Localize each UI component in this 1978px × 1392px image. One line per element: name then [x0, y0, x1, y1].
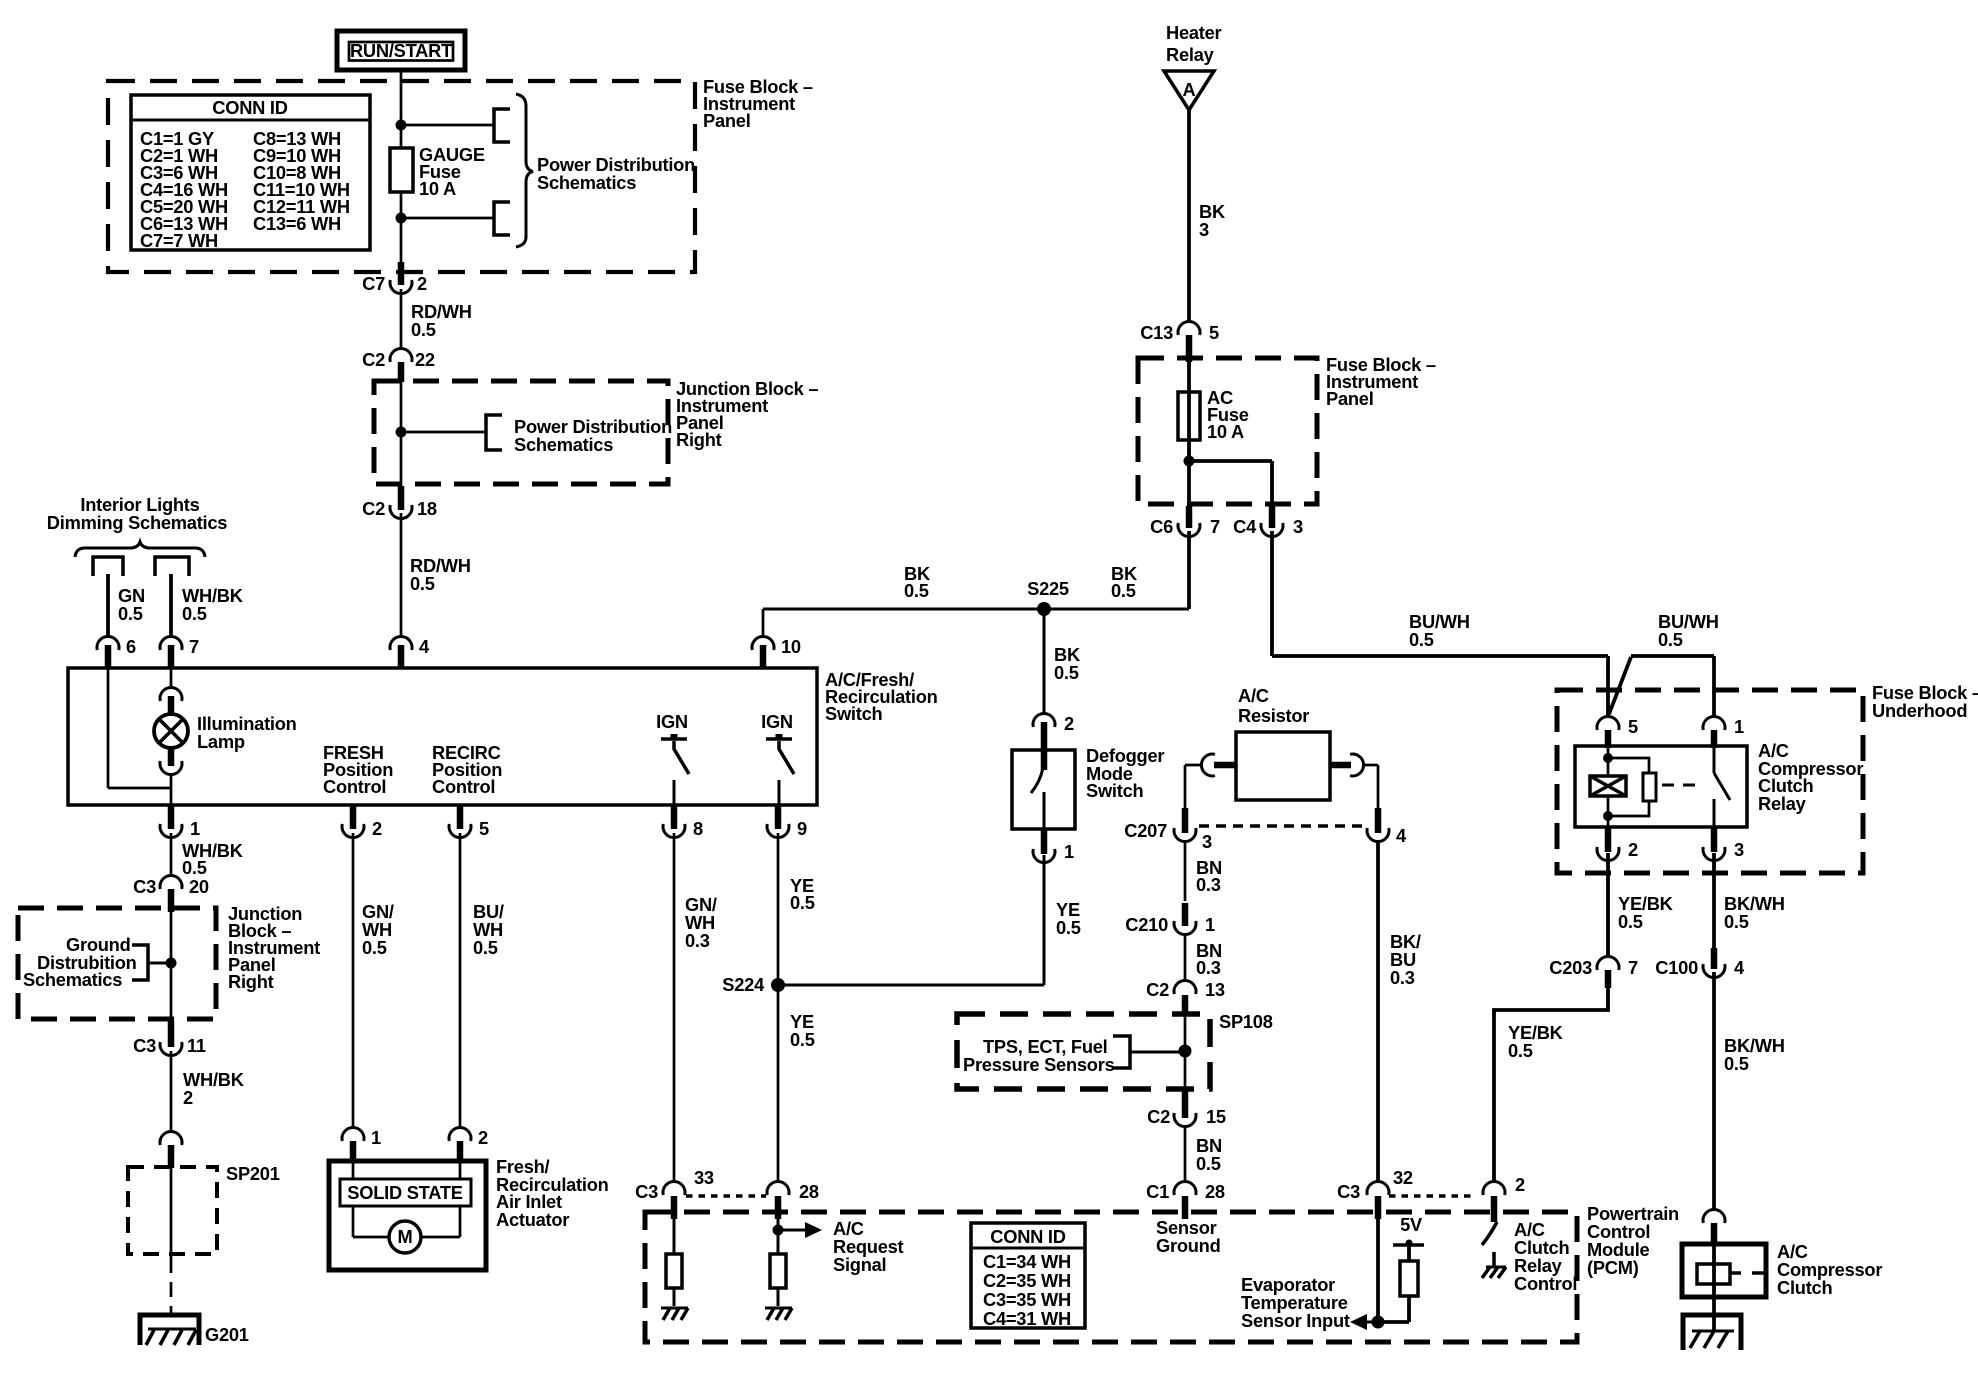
- bracket TPS sensors: [1113, 1036, 1130, 1068]
- fuse block underhood dashed box: [1557, 690, 1863, 873]
- svg-text:(PCM): (PCM): [1587, 1257, 1639, 1278]
- svg-text:2: 2: [417, 273, 427, 294]
- wire BK 0.5 from C6: [1187, 531, 1191, 609]
- svg-text:8: 8: [693, 818, 703, 839]
- wire WH/BK 2: [170, 1051, 173, 1131]
- splice SP201 dashed box: [128, 1167, 217, 1254]
- svg-text:1: 1: [190, 818, 200, 839]
- svg-text:S224: S224: [722, 974, 765, 995]
- svg-text:5: 5: [1209, 322, 1219, 343]
- connector C6 pin 7: [1186, 506, 1193, 528]
- svg-text:10: 10: [781, 636, 801, 657]
- bracket interior lights right: [155, 557, 189, 576]
- wire evaporator sensor input: [1376, 1213, 1380, 1322]
- svg-text:0.5: 0.5: [1508, 1040, 1533, 1061]
- svg-text:13: 13: [1205, 979, 1225, 1000]
- svg-text:Clutch: Clutch: [1777, 1277, 1832, 1298]
- wire GN/WH 0.3: [673, 833, 676, 1181]
- connector C100 pin 4: [1711, 948, 1718, 969]
- svg-text:Signal: Signal: [833, 1254, 886, 1275]
- svg-text:A: A: [1183, 79, 1196, 100]
- svg-text:28: 28: [1205, 1181, 1225, 1202]
- connector C2 pin 13: [1174, 980, 1196, 994]
- wire through SP201: [170, 1167, 173, 1258]
- resistor evaporator pullup: [1400, 1261, 1418, 1296]
- coil compressor clutch: [1712, 1244, 1716, 1297]
- fuse GAUGE 10 A: [390, 148, 413, 192]
- svg-text:20: 20: [189, 876, 209, 897]
- svg-text:0.5: 0.5: [182, 603, 207, 624]
- connector C7 pin 2: [398, 262, 405, 285]
- svg-text:C13=6 WH: C13=6 WH: [253, 213, 341, 234]
- A/C compressor clutch box: [1682, 1244, 1766, 1297]
- svg-text:2: 2: [478, 1127, 488, 1148]
- wire through SP108: [1184, 1014, 1187, 1089]
- svg-text:0.5: 0.5: [411, 319, 436, 340]
- svg-text:Panel: Panel: [1326, 388, 1374, 409]
- node fuse output junction: [1184, 456, 1195, 467]
- wire dotted bus 32 to 2: [1389, 1194, 1472, 1198]
- svg-text:Control: Control: [432, 776, 495, 797]
- wire GN 0.5: [106, 574, 110, 637]
- svg-text:0.5: 0.5: [118, 603, 143, 624]
- connector C4 pin 3: [1269, 506, 1276, 528]
- svg-text:Schematics: Schematics: [537, 172, 636, 193]
- svg-text:Control: Control: [323, 776, 386, 797]
- splice S224: [771, 978, 785, 992]
- svg-text:Schematics: Schematics: [23, 969, 122, 990]
- wire YE/BK 0.5 to PCM pin 2: [1494, 988, 1608, 1181]
- wire clutch to ground: [1712, 1297, 1716, 1332]
- svg-text:7: 7: [189, 636, 199, 657]
- connector C1 pin 28: [1174, 1181, 1196, 1195]
- connector pin 5 of switch: [457, 805, 464, 829]
- fuse block instrument panel dashed box right: [1138, 358, 1317, 504]
- wire fuse to C7: [400, 192, 403, 262]
- connector pin 4 of switch: [390, 636, 412, 650]
- relay coil parallel resistor: [1608, 758, 1649, 773]
- wire dotted bus 33 to 28: [686, 1194, 766, 1198]
- fresh/recirculation air inlet actuator box: [329, 1161, 486, 1270]
- svg-text:3: 3: [1293, 516, 1303, 537]
- junction block instrument panel right dashed box: [374, 381, 668, 484]
- svg-text:3: 3: [1199, 219, 1209, 240]
- connector C203 pin 7: [1597, 956, 1619, 970]
- svg-text:7: 7: [1628, 957, 1638, 978]
- svg-text:11: 11: [187, 1035, 206, 1056]
- ground PCM internal mid: [765, 1307, 792, 1310]
- wire actuator internal: [352, 1161, 355, 1179]
- wire BK/WH 0.5 from relay pin 3: [1712, 853, 1716, 948]
- svg-text:C100: C100: [1655, 957, 1698, 978]
- wire bracket to splice: [1130, 1051, 1180, 1054]
- connector C3 pin 20: [160, 875, 182, 889]
- connector C3 pin 32: [1367, 1181, 1389, 1195]
- connector relay pin 1: [1703, 716, 1725, 730]
- svg-text:Lamp: Lamp: [197, 731, 245, 752]
- svg-text:4: 4: [1734, 957, 1745, 978]
- branch bracket bottom: [494, 202, 510, 235]
- wire bracket to main: [148, 962, 171, 965]
- svg-text:0.5: 0.5: [1658, 629, 1683, 650]
- relay coil: [1607, 746, 1610, 776]
- wire BK 3: [1187, 110, 1191, 321]
- connector defogger pin 1: [1041, 829, 1048, 854]
- svg-text:SP108: SP108: [1219, 1011, 1273, 1032]
- svg-text:10 A: 10 A: [1207, 421, 1244, 442]
- svg-text:32: 32: [1393, 1167, 1413, 1188]
- svg-text:C210: C210: [1125, 914, 1168, 935]
- splice SP108 dashed box: [957, 1014, 1210, 1089]
- ground compressor clutch: [1683, 1315, 1741, 1350]
- node upper branch junction: [396, 120, 407, 131]
- svg-text:2: 2: [183, 1087, 193, 1108]
- svg-text:Right: Right: [228, 971, 274, 992]
- svg-text:IGN: IGN: [761, 711, 793, 732]
- wire YE 0.5 defogger to S224: [1043, 855, 1046, 985]
- bracket interior lights left: [93, 557, 123, 576]
- wire RD/WH 0.5: [400, 289, 403, 349]
- svg-text:2: 2: [1064, 713, 1074, 734]
- wire WH/BK 0.5: [169, 574, 173, 637]
- brace power distribution schematics: [516, 94, 533, 247]
- wire BN 0.3: [1184, 840, 1187, 901]
- svg-text:0.3: 0.3: [1196, 874, 1221, 895]
- svg-text:Relay: Relay: [1758, 793, 1807, 814]
- connector pin 8 of switch: [671, 805, 678, 829]
- solid state module: [340, 1179, 471, 1206]
- connector pin 28 of PCM: [767, 1181, 789, 1195]
- connector actuator pin 1: [342, 1127, 364, 1141]
- svg-text:Schematics: Schematics: [514, 434, 613, 455]
- svg-text:0.5: 0.5: [410, 573, 435, 594]
- node A/C request tap: [773, 1225, 784, 1236]
- connector resistor right pin: [1330, 762, 1351, 769]
- svg-text:10 A: 10 A: [419, 178, 456, 199]
- svg-text:CONN ID: CONN ID: [212, 97, 287, 118]
- connector pin 10 of switch: [762, 609, 765, 637]
- connector actuator pin 2: [449, 1127, 471, 1141]
- node lower branch junction: [396, 213, 407, 224]
- fuse AC 10 A: [1178, 392, 1200, 440]
- svg-text:C3: C3: [133, 876, 156, 897]
- switch defogger blade: [1031, 768, 1043, 793]
- ground PCM internal right: [1492, 1252, 1496, 1266]
- svg-text:SOLID STATE: SOLID STATE: [347, 1182, 462, 1203]
- svg-text:6: 6: [126, 636, 136, 657]
- connector relay pin 2: [1605, 827, 1612, 852]
- svg-text:C203: C203: [1549, 957, 1592, 978]
- brace interior lights: [75, 542, 205, 557]
- connector pin 9 of switch: [775, 805, 782, 829]
- svg-text:Switch: Switch: [1086, 780, 1143, 801]
- bracket power distribution: [486, 415, 502, 450]
- wire BK/WH 0.5 to compressor clutch: [1712, 972, 1716, 1209]
- wire resistor left to C207: [1184, 765, 1187, 810]
- svg-text:15: 15: [1206, 1106, 1226, 1127]
- wire YE 0.5 to pin 28: [777, 985, 780, 1181]
- wire through junction block: [400, 381, 403, 486]
- connector PCM pin 2: [1483, 1181, 1505, 1195]
- wire BU/WH 0.5 pin 5 to actuator: [459, 833, 462, 1128]
- switch A/C clutch relay control: [1482, 1222, 1497, 1245]
- wire resistor right to pin 4: [1377, 765, 1380, 810]
- svg-text:7: 7: [1210, 516, 1220, 537]
- wire WH/BK 0.5 from pin 1: [170, 833, 173, 876]
- connector C2 pin 22: [390, 348, 412, 362]
- svg-text:0.5: 0.5: [1724, 911, 1749, 932]
- wire RUN/START to fuse: [400, 70, 403, 148]
- svg-text:RUN/START: RUN/START: [350, 40, 452, 61]
- wire BK 0.5 to defogger: [1043, 609, 1046, 713]
- illumination lamp L1: [170, 668, 173, 688]
- svg-text:IGN: IGN: [656, 711, 688, 732]
- svg-text:Underhood: Underhood: [1872, 700, 1967, 721]
- svg-text:C4=31 WH: C4=31 WH: [983, 1308, 1071, 1329]
- svg-text:0.5: 0.5: [1111, 580, 1136, 601]
- relay K1 A/C compressor clutch relay box: [1575, 746, 1747, 827]
- svg-text:1: 1: [1734, 716, 1744, 737]
- connector relay pin 3: [1711, 827, 1718, 852]
- wire A/C request signal arrow: [778, 1229, 807, 1232]
- motor M: [389, 1221, 421, 1253]
- wire evaporator arrow: [1366, 1321, 1378, 1324]
- svg-text:2: 2: [1628, 839, 1638, 860]
- wire YE 0.5 from pin 9: [777, 833, 780, 985]
- connector C207 pin 3: [1182, 808, 1189, 833]
- svg-text:C7=7 WH: C7=7 WH: [140, 230, 218, 251]
- wire dashed to ground: [170, 1258, 173, 1316]
- connector C3 pin 33: [663, 1181, 685, 1195]
- svg-text:C3: C3: [133, 1035, 156, 1056]
- svg-text:0.5: 0.5: [790, 892, 815, 913]
- svg-text:C6: C6: [1150, 516, 1173, 537]
- svg-text:C2: C2: [362, 349, 385, 370]
- wire S224 to defogger switch: [778, 984, 1044, 987]
- node ground distribution tap: [166, 958, 177, 969]
- svg-text:0.5: 0.5: [473, 937, 498, 958]
- CONN ID table: [131, 95, 370, 250]
- node junction block tap: [396, 427, 407, 438]
- svg-text:0.5: 0.5: [904, 580, 929, 601]
- connector C210 pin 1: [1182, 903, 1189, 926]
- svg-text:0.5: 0.5: [182, 857, 207, 878]
- svg-text:C3: C3: [1337, 1181, 1360, 1202]
- connector pin 4: [1375, 808, 1382, 833]
- svg-text:CONN ID: CONN ID: [990, 1226, 1065, 1247]
- svg-text:Heater: Heater: [1166, 22, 1222, 43]
- powertrain control module PCM dashed box: [645, 1212, 1577, 1342]
- wire through ground junction block: [170, 908, 173, 1021]
- svg-text:Control: Control: [1514, 1273, 1577, 1294]
- svg-text:0.3: 0.3: [1390, 967, 1415, 988]
- svg-text:Pressure Sensors: Pressure Sensors: [963, 1054, 1115, 1075]
- svg-text:33: 33: [694, 1167, 714, 1188]
- splice S225: [1037, 602, 1051, 616]
- wire BK/BU 0.3 from pin 4: [1376, 840, 1380, 1181]
- wire dashed C207 to pin 4: [1199, 824, 1367, 828]
- wire BN 0.3 to C2: [1184, 935, 1187, 981]
- svg-text:Right: Right: [676, 429, 722, 450]
- wire BU/WH 0.5 jumper pin5 to pin1: [1609, 657, 1631, 714]
- svg-text:1: 1: [1205, 914, 1215, 935]
- svg-text:C2: C2: [1146, 979, 1169, 1000]
- svg-text:22: 22: [415, 349, 435, 370]
- node evaporator junction: [1372, 1316, 1385, 1329]
- svg-text:0.5: 0.5: [1409, 629, 1434, 650]
- svg-text:0.5: 0.5: [1196, 1153, 1221, 1174]
- connector pin 6 of switch: [97, 636, 119, 650]
- svg-text:SP201: SP201: [226, 1163, 280, 1184]
- svg-text:M: M: [398, 1226, 413, 1247]
- connector pin 2 of switch: [350, 805, 357, 829]
- svg-text:C1: C1: [1146, 1181, 1169, 1202]
- svg-text:2: 2: [1515, 1174, 1525, 1195]
- connector C2 pin 18: [398, 486, 405, 510]
- svg-text:Relay: Relay: [1166, 44, 1215, 65]
- svg-text:Resistor: Resistor: [1238, 705, 1309, 726]
- svg-text:C13: C13: [1140, 322, 1173, 343]
- resistor PCM input 33: [673, 1219, 676, 1254]
- svg-text:C7: C7: [362, 273, 385, 294]
- svg-text:0.5: 0.5: [1618, 911, 1643, 932]
- A/C/Fresh/Recirculation switch box: [68, 668, 817, 805]
- relay linkage dashed: [1662, 784, 1700, 787]
- svg-text:5: 5: [1628, 716, 1638, 737]
- defogger mode switch box: [1012, 750, 1075, 829]
- svg-text:5: 5: [479, 818, 489, 839]
- svg-text:0.5: 0.5: [1724, 1053, 1749, 1074]
- svg-text:Ground: Ground: [1156, 1235, 1221, 1256]
- svg-text:Dimming Schematics: Dimming Schematics: [47, 512, 227, 533]
- node SP108 junction: [1179, 1045, 1192, 1058]
- svg-text:28: 28: [799, 1181, 819, 1202]
- svg-text:9: 9: [797, 818, 807, 839]
- connector relay pin 5: [1597, 716, 1619, 730]
- wire branch to power distribution bottom: [401, 217, 494, 220]
- svg-text:C2: C2: [362, 498, 385, 519]
- connector pin 7 of switch: [160, 636, 182, 650]
- svg-text:0.3: 0.3: [685, 930, 710, 951]
- wire BN 0.5: [1184, 1127, 1187, 1181]
- junction block ground distribution dashed box: [18, 908, 216, 1019]
- svg-text:0.5: 0.5: [362, 937, 387, 958]
- svg-text:0.5: 0.5: [1054, 662, 1079, 683]
- wire to power distribution bracket: [401, 431, 486, 434]
- svg-text:C1=34 WH: C1=34 WH: [983, 1251, 1071, 1272]
- svg-text:18: 18: [417, 498, 437, 519]
- branch bracket top: [494, 109, 510, 142]
- connector splice entry: [160, 1131, 182, 1145]
- wire through fuse block: [1187, 358, 1191, 461]
- wire fuse output branch: [1187, 461, 1191, 506]
- wire RD/WH 0.5 to switch: [400, 513, 403, 637]
- bracket ground distribution: [132, 945, 148, 980]
- svg-text:C4: C4: [1233, 516, 1257, 537]
- svg-text:1: 1: [1064, 841, 1074, 862]
- wire lamp return to pin 6: [107, 668, 110, 788]
- wire YE/BK 0.5 from relay pin 2: [1606, 853, 1610, 956]
- svg-text:C2: C2: [1147, 1106, 1170, 1127]
- svg-text:Sensor Input: Sensor Input: [1241, 1310, 1350, 1331]
- svg-text:3: 3: [1734, 839, 1744, 860]
- svg-text:0.5: 0.5: [1056, 917, 1081, 938]
- connector C13 pin 5: [1178, 321, 1200, 335]
- connector resistor left pin: [1185, 764, 1202, 767]
- ground PCM internal left: [661, 1307, 688, 1310]
- svg-text:C3: C3: [635, 1181, 658, 1202]
- connector compressor clutch: [1703, 1209, 1725, 1223]
- wire GN/WH 0.5 pin 2 to actuator: [352, 833, 355, 1128]
- svg-text:4: 4: [419, 636, 430, 657]
- svg-text:3: 3: [1202, 831, 1212, 852]
- svg-text:Panel: Panel: [703, 110, 751, 131]
- connector defogger pin 2: [1033, 713, 1055, 727]
- svg-text:A/C: A/C: [1238, 685, 1269, 706]
- wire branch to power distribution top: [401, 124, 494, 127]
- svg-text:G201: G201: [205, 1324, 249, 1345]
- svg-text:C2=35 WH: C2=35 WH: [983, 1270, 1071, 1291]
- svg-text:S225: S225: [1027, 578, 1069, 599]
- fuse block instrument panel dashed box: [108, 81, 695, 272]
- svg-text:Actuator: Actuator: [496, 1209, 569, 1230]
- wire BK 0.5 bus: [763, 608, 1189, 611]
- CONN ID table PCM: [971, 1223, 1085, 1328]
- svg-text:C207: C207: [1124, 820, 1167, 841]
- connector C2 pin 15: [1182, 1089, 1189, 1118]
- svg-text:Switch: Switch: [825, 703, 882, 724]
- svg-text:1: 1: [371, 1127, 381, 1148]
- svg-text:5V: 5V: [1400, 1214, 1423, 1235]
- svg-text:2: 2: [372, 818, 382, 839]
- switch relay contact: [1713, 746, 1716, 773]
- svg-text:C3=35 WH: C3=35 WH: [983, 1289, 1071, 1310]
- power source RUN/START: [337, 31, 465, 70]
- connector C3 pin 11: [168, 1021, 175, 1047]
- svg-text:0.5: 0.5: [790, 1029, 815, 1050]
- svg-text:4: 4: [1396, 825, 1407, 846]
- ground G201: [140, 1315, 199, 1345]
- wire BU/WH 0.5 from C4: [1270, 531, 1274, 656]
- resistor PCM input 28: [777, 1219, 780, 1254]
- svg-text:0.3: 0.3: [1196, 957, 1221, 978]
- connector pin 1 of switch: [168, 805, 175, 829]
